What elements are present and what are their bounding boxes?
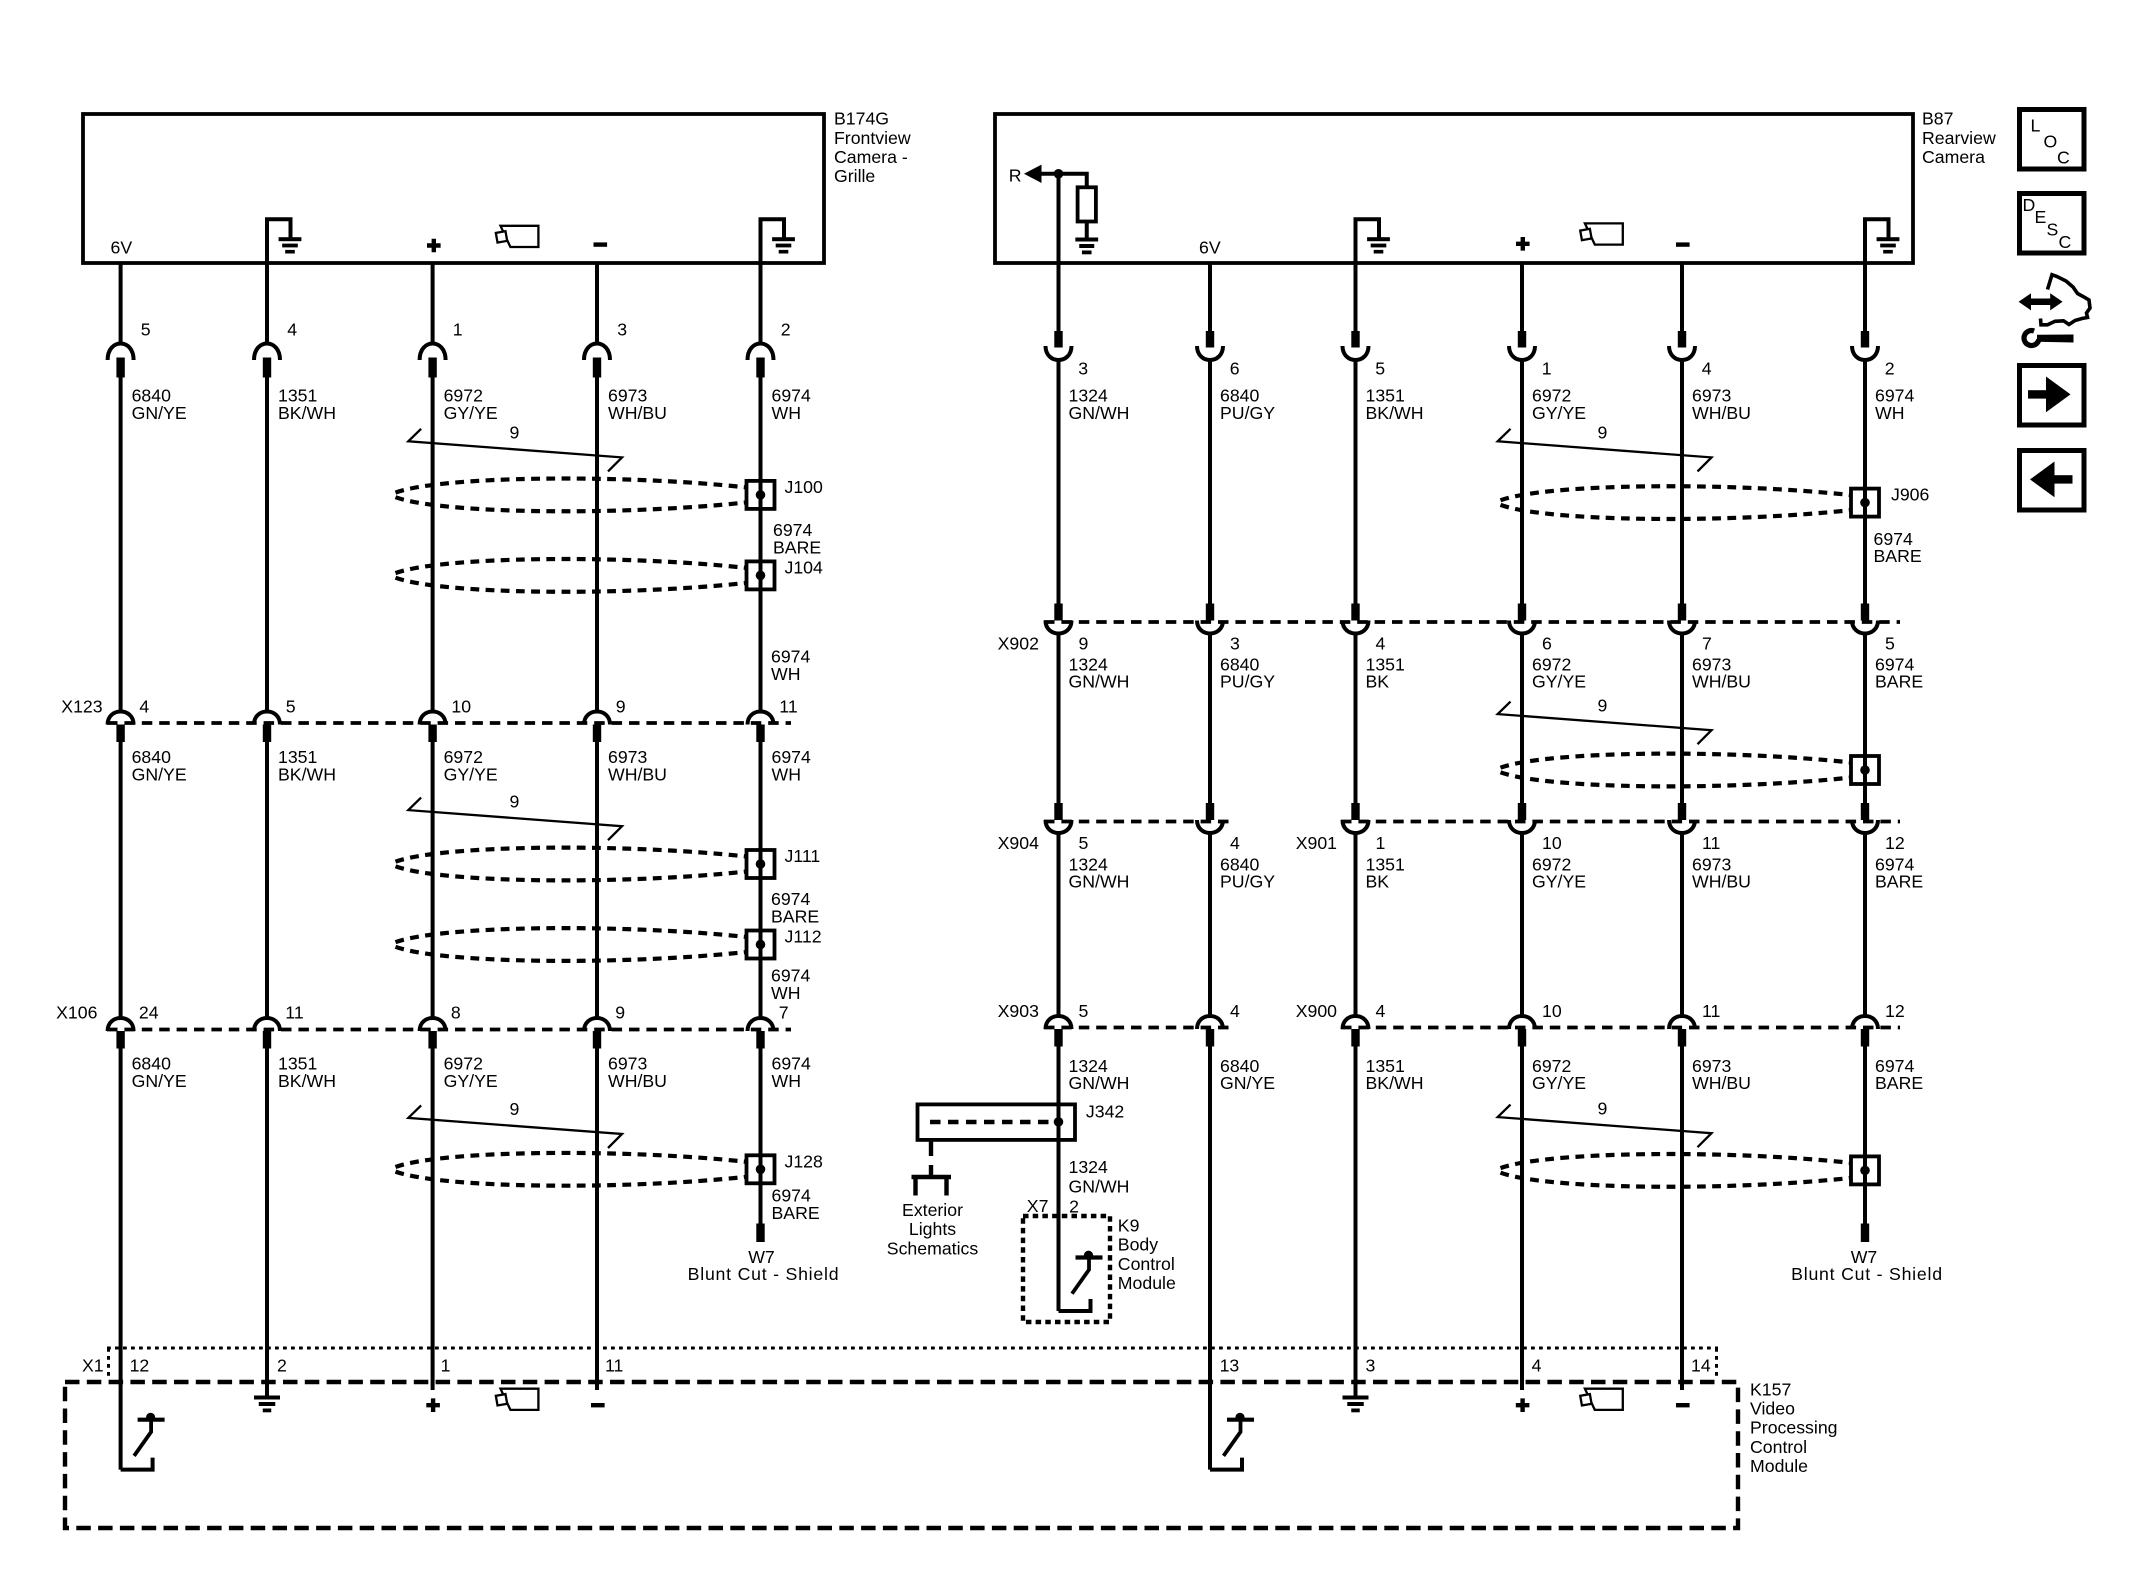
svg-text:WH: WH xyxy=(772,1071,801,1091)
svg-text:6V: 6V xyxy=(1199,238,1221,258)
inline connector pigtail B87 pin 5 xyxy=(1351,331,1359,348)
svg-text:12: 12 xyxy=(130,1356,150,1376)
svg-text:D: D xyxy=(2023,195,2036,215)
svg-text:9: 9 xyxy=(1079,634,1089,654)
svg-text:11: 11 xyxy=(1702,1001,1720,1021)
wire 6974 WH segment to X123 xyxy=(759,378,763,712)
wire 1324 GN/WH segment to X902 xyxy=(1057,360,1061,604)
wire 6973 WH/BU segment to X903/X900 row xyxy=(1680,833,1684,1015)
shield drain ellipse to J104 xyxy=(396,559,747,573)
connector X900 pin 12 xyxy=(1852,1016,1878,1029)
connector X902 pin 4 xyxy=(1351,604,1359,621)
connector X901 pin 1 xyxy=(1351,803,1359,820)
splice pack J342 box xyxy=(918,1104,1076,1140)
shield drain ellipse to J906 xyxy=(1501,486,1852,500)
connector X904 pin 5 xyxy=(1054,803,1062,820)
connector X902 pin 6 xyxy=(1518,604,1526,621)
svg-text:GY/YE: GY/YE xyxy=(444,764,498,784)
svg-text:WH/BU: WH/BU xyxy=(608,403,667,423)
svg-text:9: 9 xyxy=(510,1099,520,1119)
svg-text:BARE: BARE xyxy=(773,537,821,557)
connector X106 pin 24 xyxy=(108,1018,134,1031)
svg-text:GN/WH: GN/WH xyxy=(1069,403,1130,423)
wire 1351 BK/WH segment to X123 xyxy=(265,378,269,712)
svg-text:9: 9 xyxy=(616,697,626,717)
svg-text:14: 14 xyxy=(1691,1356,1711,1376)
svg-text:PU/GY: PU/GY xyxy=(1220,872,1275,892)
svg-text:X902: X902 xyxy=(998,634,1039,654)
svg-text:X7: X7 xyxy=(1027,1196,1049,1216)
svg-text:11: 11 xyxy=(285,1003,303,1023)
svg-text:12: 12 xyxy=(1885,1001,1905,1021)
R signal arrow xyxy=(1024,165,1042,183)
svg-text:1: 1 xyxy=(1542,359,1552,379)
wire 6974 BARE segment to blunt cut W7 xyxy=(1863,1047,1867,1226)
wire 6974 BARE segment to X903/X900 row xyxy=(1863,833,1867,1015)
ground symbol inside K157 (pin 2) xyxy=(265,1382,269,1398)
connector X106 pin 9 xyxy=(584,1018,610,1031)
svg-text:9: 9 xyxy=(1598,423,1608,443)
svg-text:2: 2 xyxy=(781,320,791,340)
wire 6973 WH/BU segment to K157 xyxy=(595,1049,599,1391)
wire 6974 WH segment to X106 xyxy=(759,742,763,1017)
connector row X106 dashed line xyxy=(107,1028,791,1032)
svg-text:2: 2 xyxy=(1069,1197,1079,1217)
svg-text:L: L xyxy=(2031,116,2041,136)
svg-text:11: 11 xyxy=(605,1356,623,1376)
svg-text:2: 2 xyxy=(277,1356,287,1376)
svg-text:S: S xyxy=(2047,220,2059,240)
svg-text:Body: Body xyxy=(1118,1235,1158,1255)
shield drain ellipse to J128 xyxy=(396,1153,747,1167)
icon box arrow left xyxy=(2020,451,2085,511)
svg-text:C: C xyxy=(2057,148,2070,168)
svg-text:BARE: BARE xyxy=(771,906,819,926)
shield drain ellipse (rear, lower) xyxy=(1501,1154,1852,1168)
svg-text:3: 3 xyxy=(1230,634,1240,654)
svg-text:9: 9 xyxy=(615,1003,625,1023)
connector row X901 dashed line xyxy=(1341,820,1900,824)
connector X123 pin 10 xyxy=(420,712,446,725)
svg-text:GN/WH: GN/WH xyxy=(1069,872,1130,892)
svg-text:X904: X904 xyxy=(998,833,1039,853)
icon box LOC xyxy=(2020,110,2085,170)
wire 6973 WH/BU segment to X123 xyxy=(595,378,599,712)
svg-text:WH/BU: WH/BU xyxy=(1692,672,1751,692)
junction node on R line xyxy=(1054,169,1064,179)
inline connector pigtail B87 pin 3 xyxy=(1054,331,1062,348)
svg-text:J104: J104 xyxy=(785,557,824,577)
svg-text:WH: WH xyxy=(772,764,801,784)
splice J128 box xyxy=(747,1155,775,1183)
svg-text:X123: X123 xyxy=(61,697,102,717)
svg-text:BK/WH: BK/WH xyxy=(1366,1073,1424,1093)
wire 6974 WH segment to blunt cut W7 xyxy=(759,1049,763,1226)
blunt cut end W7 (right shield) xyxy=(1861,1224,1869,1243)
wire 1324 GN/WH segment to K9 body control module xyxy=(1057,1047,1061,1312)
wire 6974 BARE segment to X904/X901 row xyxy=(1863,634,1867,805)
svg-text:Camera -: Camera - xyxy=(834,147,908,167)
wire 6840 PU/GY segment to X902 xyxy=(1208,360,1212,604)
svg-text:X1: X1 xyxy=(82,1356,104,1376)
svg-text:3: 3 xyxy=(1078,359,1088,379)
svg-text:8: 8 xyxy=(451,1003,461,1023)
svg-text:5: 5 xyxy=(286,697,296,717)
wire 6840 GN/YE segment to K157 xyxy=(1208,1047,1212,1470)
wire 6973 WH/BU segment to X902 xyxy=(1680,360,1684,604)
wire 6840 PU/GY segment to X903/X900 row xyxy=(1208,833,1212,1015)
camera icon inside K157 (rear) xyxy=(1585,1389,1623,1410)
svg-text:BK: BK xyxy=(1366,672,1390,692)
wire from R arrow to resistor xyxy=(1038,174,1087,188)
wire 6973 WH/BU segment from B174G pin 3 xyxy=(595,263,599,345)
svg-text:4: 4 xyxy=(1376,634,1386,654)
wire 1351 BK segment to X903/X900 row xyxy=(1354,833,1358,1015)
svg-text:10: 10 xyxy=(1542,833,1562,853)
svg-text:WH/BU: WH/BU xyxy=(1692,1073,1751,1093)
minus label inside K157 (pin 14) xyxy=(1676,1403,1690,1407)
plus label inside K157 (pin 4) xyxy=(1516,1398,1530,1412)
svg-text:5: 5 xyxy=(1885,634,1895,654)
svg-text:1: 1 xyxy=(1376,833,1386,853)
wire 6973 WH/BU segment to X904/X901 row xyxy=(1680,634,1684,805)
svg-text:GN/YE: GN/YE xyxy=(1220,1073,1275,1093)
svg-text:5: 5 xyxy=(1079,833,1089,853)
wire 6840 GN/YE segment to X123 xyxy=(119,378,123,712)
svg-text:C: C xyxy=(2059,232,2072,252)
connector X900 pin 10 xyxy=(1509,1016,1535,1029)
svg-text:4: 4 xyxy=(139,697,149,717)
wire 6972 GY/YE segment to K157 xyxy=(1520,1047,1524,1391)
svg-text:1: 1 xyxy=(441,1356,451,1376)
ground symbol inside B87 (pin 2) xyxy=(1865,219,1889,263)
svg-text:Frontview: Frontview xyxy=(834,128,911,148)
svg-text:GN/YE: GN/YE xyxy=(132,764,187,784)
svg-text:10: 10 xyxy=(451,697,471,717)
svg-text:Module: Module xyxy=(1118,1273,1176,1293)
svg-text:PU/GY: PU/GY xyxy=(1220,403,1275,423)
svg-text:X903: X903 xyxy=(998,1001,1039,1021)
svg-text:4: 4 xyxy=(1230,1001,1240,1021)
wire 1324 GN/WH segment to X903/X900 row xyxy=(1057,833,1061,1015)
svg-text:GY/YE: GY/YE xyxy=(1532,872,1586,892)
svg-text:4: 4 xyxy=(287,320,297,340)
connector X902 pin 3 xyxy=(1206,604,1214,621)
svg-text:J100: J100 xyxy=(785,477,824,497)
svg-text:1324: 1324 xyxy=(1069,1157,1109,1177)
svg-text:GY/YE: GY/YE xyxy=(444,1071,498,1091)
shield drain ellipse to J111 xyxy=(396,848,747,862)
junction node J342 on wire 1324 xyxy=(1054,1117,1064,1127)
wire 6972 GY/YE segment from B87 pin 1 xyxy=(1520,263,1524,332)
splice J112 box xyxy=(747,931,775,959)
svg-text:3: 3 xyxy=(1366,1356,1376,1376)
svg-text:B174G: B174G xyxy=(834,109,889,129)
svg-text:4: 4 xyxy=(1702,359,1712,379)
connector X901 pin 10 xyxy=(1518,803,1526,820)
wire 1324 GN/WH segment from junction through B87 pin 3 xyxy=(1057,174,1061,332)
inline connector pigtail B174G pin 2 xyxy=(748,344,774,361)
svg-text:Camera: Camera xyxy=(1922,147,1985,167)
svg-text:Control: Control xyxy=(1750,1437,1807,1457)
svg-text:24: 24 xyxy=(139,1003,159,1023)
shield drain ellipse to J112 xyxy=(396,928,747,942)
connector row X904 dashed line xyxy=(1044,820,1229,824)
connector X903 pin 4 xyxy=(1197,1016,1223,1029)
svg-text:PU/GY: PU/GY xyxy=(1220,672,1275,692)
connector X106 pin 8 xyxy=(420,1018,446,1031)
svg-text:9: 9 xyxy=(1598,695,1608,715)
svg-text:K9: K9 xyxy=(1118,1216,1140,1236)
connector X901 pin 11 xyxy=(1678,803,1686,820)
shield drain ellipse to J100 xyxy=(396,479,747,493)
svg-text:13: 13 xyxy=(1220,1356,1240,1376)
svg-text:BK/WH: BK/WH xyxy=(278,764,336,784)
wire 1351 BK/WH segment to K157 xyxy=(265,1049,269,1396)
wire 6973 WH/BU segment to X106 xyxy=(595,742,599,1017)
svg-text:E: E xyxy=(2035,207,2047,227)
svg-text:Rearview: Rearview xyxy=(1922,128,1996,148)
svg-text:5: 5 xyxy=(1079,1001,1089,1021)
wire 6973 WH/BU segment from B87 pin 4 xyxy=(1680,263,1684,332)
wire 6972 GY/YE segment from B174G pin 1 xyxy=(431,263,435,345)
inline connector pigtail B174G pin 5 xyxy=(108,344,134,361)
ground symbol inside B174G (pin 4) xyxy=(267,219,291,263)
svg-text:Processing: Processing xyxy=(1750,1418,1838,1438)
switch inside K157 (front camera power) xyxy=(146,1413,155,1422)
svg-text:6: 6 xyxy=(1542,634,1552,654)
svg-text:J111: J111 xyxy=(785,846,821,866)
svg-text:GN/WH: GN/WH xyxy=(1069,672,1130,692)
wire 6840 PU/GY segment from B87 pin 6 xyxy=(1208,263,1212,332)
wire 6840 PU/GY segment to X904/X901 row xyxy=(1208,634,1212,805)
shield drain ellipse (rear, middle) xyxy=(1501,754,1852,768)
inline connector pigtail B174G pin 3 xyxy=(584,344,610,361)
connector X902 pin 7 xyxy=(1678,604,1686,621)
icon repair / double arrow with wrench xyxy=(2027,299,2054,306)
splice box (rear shield, middle) xyxy=(1851,756,1879,784)
resistor R (pull-up inside B87) xyxy=(1078,187,1096,221)
blunt cut end W7 (left shield) xyxy=(756,1224,764,1243)
switch inside K9 (reverse signal) xyxy=(1084,1251,1093,1260)
icon box arrow right xyxy=(2020,366,2085,426)
splice pack J342 internal dashed bus xyxy=(930,1120,1052,1125)
splice J906 box xyxy=(1851,489,1879,517)
wire 1351 BK/WH segment from B174G pin 4 xyxy=(265,263,269,345)
icon box DESC xyxy=(2020,194,2085,254)
svg-text:Lights: Lights xyxy=(909,1219,956,1239)
wire 6840 GN/YE segment to X106 xyxy=(119,742,123,1017)
connector X903 pin 5 xyxy=(1046,1016,1072,1029)
switch inside K157 (rear camera power) xyxy=(1235,1413,1244,1422)
plus pin label (B87 pin 1) xyxy=(1516,237,1530,251)
svg-text:O: O xyxy=(2044,132,2058,152)
connector X123 pin 9 xyxy=(584,712,610,725)
connector row X123 dashed line xyxy=(107,721,791,725)
wire 6840 GN/YE segment to K157 xyxy=(119,1049,123,1470)
branch wire to exterior lights (dashed) xyxy=(929,1141,933,1175)
svg-text:11: 11 xyxy=(779,697,797,717)
svg-text:WH: WH xyxy=(772,403,801,423)
wire 1351 BK/WH segment from B87 pin 5 xyxy=(1354,263,1358,332)
connector row X902 dashed line xyxy=(1044,620,1900,624)
connector X900 pin 4 xyxy=(1343,1016,1369,1029)
svg-text:BK: BK xyxy=(1366,872,1390,892)
svg-text:4: 4 xyxy=(1532,1356,1542,1376)
svg-text:4: 4 xyxy=(1230,833,1240,853)
wire 6972 GY/YE segment to K157 xyxy=(431,1049,435,1391)
svg-text:WH/BU: WH/BU xyxy=(608,1071,667,1091)
svg-text:BARE: BARE xyxy=(1875,872,1923,892)
inline connector pigtail B174G pin 4 xyxy=(254,344,280,361)
connector X902 pin 5 xyxy=(1861,604,1869,621)
svg-text:7: 7 xyxy=(1702,634,1712,654)
camera module B87 box outline xyxy=(995,114,1913,263)
camera icon inside B87 xyxy=(1585,223,1623,244)
svg-text:BARE: BARE xyxy=(772,1203,820,1223)
connector X904 pin 4 xyxy=(1206,803,1214,820)
svg-text:GN/WH: GN/WH xyxy=(1069,1176,1130,1196)
splice J111 box xyxy=(747,850,775,878)
svg-text:10: 10 xyxy=(1542,1001,1562,1021)
svg-text:BARE: BARE xyxy=(1874,546,1922,566)
svg-text:2: 2 xyxy=(1885,359,1895,379)
wire 6973 WH/BU segment to K157 xyxy=(1680,1047,1684,1391)
svg-text:WH: WH xyxy=(1875,403,1904,423)
wire 6972 GY/YE segment to X904/X901 row xyxy=(1520,634,1524,805)
inline connector pigtail B87 pin 2 xyxy=(1861,331,1869,348)
svg-text:5: 5 xyxy=(1375,359,1385,379)
svg-text:Exterior: Exterior xyxy=(902,1200,963,1220)
svg-text:3: 3 xyxy=(617,320,627,340)
svg-text:J128: J128 xyxy=(785,1151,824,1171)
wire 6974 WH segment to X902 xyxy=(1863,360,1867,604)
svg-text:X901: X901 xyxy=(1296,833,1337,853)
svg-text:R: R xyxy=(1009,166,1022,186)
inline connector pigtail B87 pin 4 xyxy=(1678,331,1686,348)
svg-text:GY/YE: GY/YE xyxy=(1532,1073,1586,1093)
svg-text:BK/WH: BK/WH xyxy=(278,1071,336,1091)
svg-text:1: 1 xyxy=(453,320,463,340)
ground symbol inside K157 (pin 3) xyxy=(1354,1382,1358,1398)
ground symbol inside B87 (pin 5) xyxy=(1356,219,1380,263)
svg-text:9: 9 xyxy=(1598,1098,1608,1118)
svg-text:7: 7 xyxy=(779,1003,789,1023)
svg-text:Blunt Cut - Shield: Blunt Cut - Shield xyxy=(688,1264,840,1284)
svg-text:J906: J906 xyxy=(1891,485,1930,505)
svg-text:WH/BU: WH/BU xyxy=(608,764,667,784)
splice J104 box xyxy=(747,561,775,589)
svg-text:12: 12 xyxy=(1885,833,1905,853)
wire 6974 WH segment from B174G pin 2 xyxy=(759,263,763,345)
svg-text:WH/BU: WH/BU xyxy=(1692,872,1751,892)
svg-text:BK/WH: BK/WH xyxy=(278,403,336,423)
svg-text:WH/BU: WH/BU xyxy=(1692,403,1751,423)
svg-text:J112: J112 xyxy=(785,927,822,947)
svg-text:Blunt Cut - Shield: Blunt Cut - Shield xyxy=(1791,1264,1943,1284)
svg-text:Schematics: Schematics xyxy=(887,1238,979,1258)
splice box (rear shield, lower) xyxy=(1851,1156,1879,1184)
connector X902 pin 9 xyxy=(1054,604,1062,621)
module K157 dashed box xyxy=(65,1382,1738,1528)
svg-text:GN/YE: GN/YE xyxy=(132,1071,187,1091)
connector X106 pin 11 xyxy=(254,1018,280,1031)
svg-text:Module: Module xyxy=(1750,1456,1808,1476)
svg-text:WH: WH xyxy=(771,983,800,1003)
svg-text:GN/WH: GN/WH xyxy=(1069,1073,1130,1093)
inline connector pigtail B87 pin 1 xyxy=(1518,331,1526,348)
off-page reference symbol (exterior lights) xyxy=(912,1175,952,1179)
svg-text:Video: Video xyxy=(1750,1399,1795,1419)
inline connector pigtail B87 pin 6 xyxy=(1206,331,1214,348)
svg-text:J342: J342 xyxy=(1086,1102,1124,1122)
connector X123 pin 4 xyxy=(108,712,134,725)
camera module B174G box outline xyxy=(83,114,824,263)
minus label inside K157 (pin 11) xyxy=(591,1403,605,1407)
svg-text:GY/YE: GY/YE xyxy=(1532,403,1586,423)
svg-text:6: 6 xyxy=(1230,359,1240,379)
connector row X903 dashed line xyxy=(1044,1026,1229,1030)
svg-text:BARE: BARE xyxy=(1875,672,1923,692)
connector X123 pin 5 xyxy=(254,712,280,725)
wire 6974 WH segment from B87 pin 2 xyxy=(1863,263,1867,332)
connector row X900 dashed line xyxy=(1341,1026,1900,1030)
module K9 dashed box xyxy=(1023,1216,1110,1322)
inline connector pigtail B174G pin 1 xyxy=(420,344,446,361)
wire 1351 BK/WH segment to K157 xyxy=(1354,1047,1358,1396)
connector X106 pin 7 xyxy=(748,1018,774,1031)
svg-text:X900: X900 xyxy=(1296,1001,1337,1021)
wire 6972 GY/YE segment to X903/X900 row xyxy=(1520,833,1524,1015)
svg-text:9: 9 xyxy=(510,791,520,811)
svg-text:GY/YE: GY/YE xyxy=(444,403,498,423)
minus pin label (B87 pin 4) xyxy=(1676,242,1690,246)
svg-text:GY/YE: GY/YE xyxy=(1532,672,1586,692)
ground symbol below resistor xyxy=(1085,222,1089,240)
plus pin label (B174G pin 1) xyxy=(427,239,441,253)
wire 1351 BK segment to X904/X901 row xyxy=(1354,634,1358,805)
wire 1351 BK/WH segment to X106 xyxy=(265,742,269,1017)
ground symbol inside B174G (pin 2) xyxy=(761,219,785,263)
svg-text:BARE: BARE xyxy=(1875,1073,1923,1093)
svg-text:K157: K157 xyxy=(1750,1379,1791,1399)
connector X901 pin 12 xyxy=(1861,803,1869,820)
connector X123 pin 11 xyxy=(748,712,774,725)
wire 6972 GY/YE segment to X902 xyxy=(1520,360,1524,604)
svg-text:5: 5 xyxy=(141,320,151,340)
svg-text:B87: B87 xyxy=(1922,109,1953,129)
svg-text:9: 9 xyxy=(510,423,520,443)
connector X1 dotted outline xyxy=(107,1347,1718,1350)
svg-text:6V: 6V xyxy=(111,238,133,258)
svg-text:Control: Control xyxy=(1118,1254,1175,1274)
camera icon inside B174G xyxy=(501,226,539,247)
svg-text:Grille: Grille xyxy=(834,166,875,186)
wire 6972 GY/YE segment to X123 xyxy=(431,378,435,712)
svg-text:X106: X106 xyxy=(56,1003,97,1023)
wire 1351 BK/WH segment to X902 xyxy=(1354,360,1358,604)
splice J100 box xyxy=(747,481,775,509)
camera icon inside K157 (front) xyxy=(501,1389,539,1410)
svg-text:11: 11 xyxy=(1702,833,1720,853)
svg-text:GN/YE: GN/YE xyxy=(132,403,187,423)
svg-text:WH: WH xyxy=(771,664,800,684)
plus label inside K157 (pin 1) xyxy=(426,1398,440,1412)
svg-text:BK/WH: BK/WH xyxy=(1366,403,1424,423)
svg-text:4: 4 xyxy=(1376,1001,1386,1021)
minus pin label (B174G pin 3) xyxy=(594,242,608,246)
wire 6840 GN/YE segment from B174G pin 5 xyxy=(119,263,123,345)
